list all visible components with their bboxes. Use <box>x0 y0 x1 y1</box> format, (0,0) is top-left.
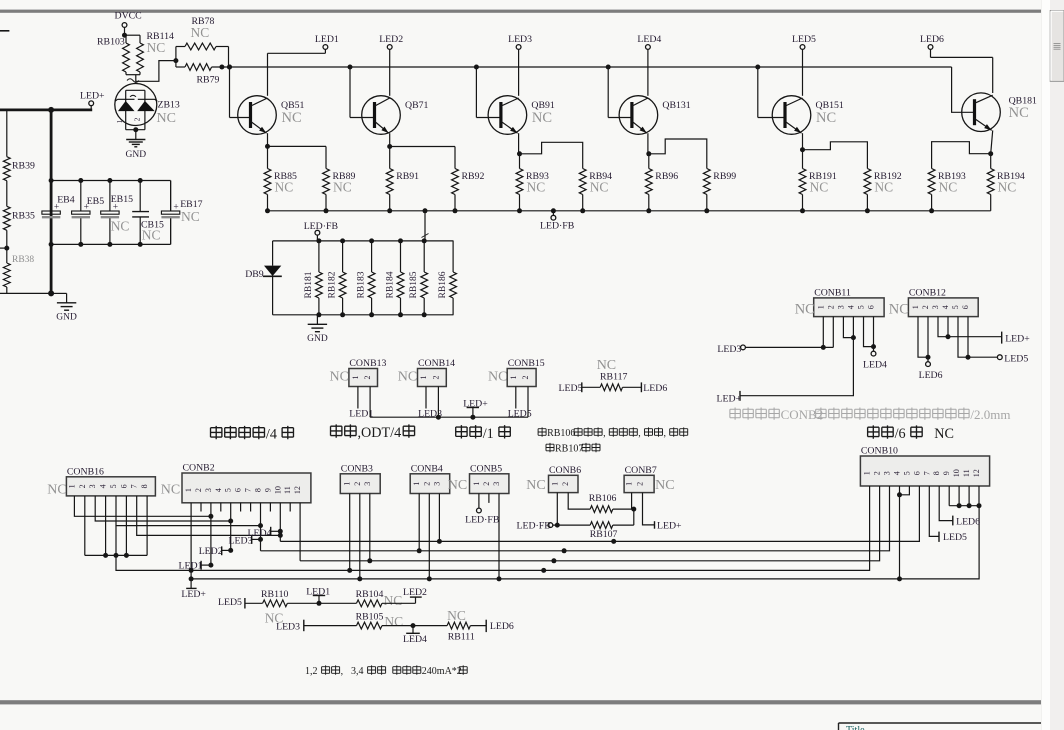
wire RB78 right down <box>216 47 229 68</box>
svg-text:2: 2 <box>353 482 362 486</box>
node low bus p5 <box>114 553 119 558</box>
svg-text:CONB5: CONB5 <box>470 463 502 474</box>
node RB35/RB38 junction <box>0 246 9 251</box>
node EB15 top node <box>107 178 112 183</box>
wire CONB11 pin6 LED4 <box>863 317 887 371</box>
svg-text:GND: GND <box>307 334 328 344</box>
svg-text:12: 12 <box>972 469 981 477</box>
svg-text:NC: NC <box>810 180 829 195</box>
node L5 conb4p2 <box>427 576 432 581</box>
resistor RB38 <box>3 248 34 293</box>
svg-text:NC: NC <box>816 110 836 126</box>
left edge wire stub <box>0 30 9 32</box>
capacitor EB15 <box>101 181 133 245</box>
svg-text:QB131: QB131 <box>662 100 690 111</box>
wire bus L3 <box>300 486 880 561</box>
svg-text:NC: NC <box>384 614 403 629</box>
wire to GND <box>51 293 67 302</box>
svg-text:4: 4 <box>99 484 108 488</box>
svg-text:RB103: RB103 <box>97 37 125 48</box>
node RB18x bottom <box>340 312 345 317</box>
svg-text:5: 5 <box>224 488 233 492</box>
svg-text:LED5: LED5 <box>1004 354 1028 365</box>
node RB191 rail <box>800 208 805 213</box>
wire base bus <box>230 66 952 68</box>
svg-text:/6: /6 <box>895 426 906 442</box>
svg-text:3: 3 <box>432 482 441 486</box>
node L5 conb5p3 <box>497 576 502 581</box>
transistor QB131 <box>619 96 691 135</box>
wire C4p2 <box>428 494 430 579</box>
node RB18x bottom <box>422 312 427 317</box>
wire CONB12 pin6 LED5 <box>968 317 1028 365</box>
svg-text:QB71: QB71 <box>405 100 429 111</box>
svg-text:EB15: EB15 <box>111 194 133 205</box>
node L4 conb3p1 <box>347 568 352 573</box>
wire CONB11 pin5 <box>864 317 877 350</box>
wire C3p2 <box>359 494 361 579</box>
terminal LED1 <box>268 34 339 53</box>
wire RB106 right <box>613 507 637 512</box>
svg-text:RB35: RB35 <box>12 211 35 222</box>
svg-text:CONB13: CONB13 <box>349 358 386 369</box>
title block <box>839 723 1051 730</box>
node RB91 rail <box>387 208 392 213</box>
svg-text:11: 11 <box>283 486 292 494</box>
wire CONB11 pin2 <box>832 317 834 348</box>
terminal LED3 low <box>276 620 304 633</box>
resistor RB191 <box>799 150 837 211</box>
svg-text:1: 1 <box>351 376 360 380</box>
terminal LED1 mesh <box>179 561 211 572</box>
resistor RB99 <box>703 169 736 211</box>
svg-text:NC: NC <box>147 40 166 55</box>
wire C7p1 <box>632 493 634 510</box>
terminal LED6 <box>920 34 993 57</box>
wire to RB94 <box>520 142 583 168</box>
node L2 conb4p1 <box>417 548 422 553</box>
svg-text:LED·FB: LED·FB <box>540 221 575 232</box>
svg-text:RB186: RB186 <box>438 271 448 298</box>
bottom gray border bar <box>0 700 1049 704</box>
node base riser QB51 <box>227 65 232 70</box>
svg-text:11: 11 <box>962 469 971 477</box>
wire left branch <box>6 110 8 157</box>
svg-text:RB91: RB91 <box>396 171 419 182</box>
wire C16p3 bus <box>95 496 233 524</box>
svg-text:8: 8 <box>140 484 149 488</box>
resistor RB192 <box>864 169 902 211</box>
svg-text:3,4: 3,4 <box>351 666 364 677</box>
svg-text:4: 4 <box>941 305 950 309</box>
svg-text:CONB4: CONB4 <box>411 463 443 474</box>
wire CONB12 pin4 <box>947 317 949 337</box>
svg-text:10: 10 <box>273 486 282 494</box>
ground DB9 section <box>307 315 328 344</box>
caption socket note <box>730 407 1011 422</box>
svg-text:7: 7 <box>922 471 931 475</box>
node RB79 out <box>219 65 232 70</box>
terminal LED4 low <box>382 623 447 645</box>
wire CONB12 pin3 <box>938 317 1002 340</box>
wire C4p1 <box>418 494 420 551</box>
terminal LED-FB mid <box>304 221 339 241</box>
svg-text:NC: NC <box>157 111 176 126</box>
wire emitter QB91 <box>518 133 521 154</box>
svg-text:LED2: LED2 <box>403 587 427 598</box>
connector CONB13 <box>330 358 387 387</box>
terminal LED2 mesh <box>199 546 231 557</box>
svg-text:240mA*2: 240mA*2 <box>422 666 462 677</box>
terminal LED3 <box>508 34 532 96</box>
svg-text:NC: NC <box>1009 105 1029 121</box>
connector CONB6 <box>526 465 581 493</box>
wire C2p5 <box>228 512 233 553</box>
svg-text:2: 2 <box>78 484 87 488</box>
svg-text:RB183: RB183 <box>357 271 367 298</box>
svg-text:LED2: LED2 <box>199 546 223 557</box>
diode DB9 <box>245 241 282 315</box>
no-ERC marker descender <box>422 234 429 238</box>
svg-text:,: , <box>603 428 606 439</box>
svg-text:3: 3 <box>363 482 372 486</box>
svg-text:6: 6 <box>234 488 243 492</box>
svg-text:2: 2 <box>194 488 203 492</box>
svg-text:,: , <box>664 428 667 439</box>
svg-text:5: 5 <box>951 305 960 309</box>
wire base QB131 <box>608 67 632 118</box>
svg-text:2: 2 <box>521 376 530 380</box>
node emitter junction QB51 <box>265 144 270 149</box>
svg-text:DB9: DB9 <box>245 269 264 280</box>
node emitter junction QB181 <box>988 151 993 156</box>
connector CONB11 <box>795 287 884 317</box>
svg-text:3: 3 <box>204 488 213 492</box>
wire CONB15 pin1 <box>508 387 532 420</box>
terminal LED+ bottom <box>181 579 206 600</box>
wire cap top rail <box>51 181 171 212</box>
svg-text:NC: NC <box>527 180 546 195</box>
wire low bus descender <box>116 555 191 570</box>
wire emitter QB131 <box>647 133 650 154</box>
svg-text:NC: NC <box>282 110 302 126</box>
connector CONB7 <box>624 465 674 493</box>
wire base QB51 <box>230 67 251 118</box>
svg-text:3: 3 <box>88 484 97 488</box>
svg-text:3: 3 <box>836 305 845 309</box>
node RB18x bottom <box>398 312 403 317</box>
svg-text:8: 8 <box>932 471 941 475</box>
svg-text:NC: NC <box>655 478 674 493</box>
terminal LED-FB stage <box>540 208 575 231</box>
svg-text:Title: Title <box>846 725 865 730</box>
svg-text:LED6: LED6 <box>956 516 980 527</box>
wire rail descender vertical <box>424 211 426 241</box>
node EB5 top node <box>78 178 83 183</box>
svg-text:CONB7: CONB7 <box>625 465 657 476</box>
wire base QB181 <box>952 67 975 112</box>
svg-text:NC: NC <box>488 370 507 385</box>
wire bus L4 <box>191 486 870 570</box>
resistor RB114 <box>137 31 174 75</box>
svg-text:6: 6 <box>961 305 970 309</box>
svg-text:RB99: RB99 <box>713 171 736 182</box>
svg-text:2: 2 <box>873 471 882 475</box>
svg-text:LED+: LED+ <box>1005 334 1030 345</box>
resistor RB96 <box>645 154 678 211</box>
wire RB106/107 link <box>633 509 635 525</box>
svg-text:LED6: LED6 <box>919 370 943 381</box>
node emitter junction QB91 <box>517 151 522 156</box>
svg-text:6: 6 <box>912 471 921 475</box>
wire C2p10 <box>278 512 283 542</box>
wire C2p12 <box>299 512 301 561</box>
terminal LED6 tick <box>641 382 667 393</box>
svg-text:RB39: RB39 <box>12 161 35 172</box>
svg-text:CONB2: CONB2 <box>183 463 215 474</box>
resistor RB186 <box>438 241 456 315</box>
svg-text:LED+: LED+ <box>717 394 742 405</box>
terminal LED5 tick <box>559 382 583 393</box>
svg-text:4: 4 <box>214 488 223 492</box>
terminal LED+ mid <box>463 398 488 419</box>
resistor RB183 <box>357 241 375 315</box>
node RB18x top <box>398 238 403 243</box>
svg-text:LED·FB: LED·FB <box>517 521 552 532</box>
svg-text:NC: NC <box>874 180 893 195</box>
ground left <box>56 303 77 323</box>
resistor RB117 <box>582 358 642 391</box>
svg-text:/1: /1 <box>483 426 494 442</box>
resistor RB92 <box>452 169 485 211</box>
svg-text:5: 5 <box>902 471 911 475</box>
svg-text:LED·FB: LED·FB <box>465 515 500 526</box>
svg-text:NC: NC <box>398 370 417 385</box>
svg-text:NC: NC <box>47 483 66 498</box>
wire CONB12 pin5 <box>958 317 971 360</box>
resistor RB185 <box>409 241 427 315</box>
node CB15 top node <box>138 178 143 183</box>
svg-text:RB79: RB79 <box>197 75 220 86</box>
wire RB79 right <box>212 66 230 68</box>
svg-text:NC: NC <box>191 25 210 40</box>
svg-text:NC: NC <box>998 180 1017 195</box>
node EB15 bottom node <box>107 242 112 247</box>
terminal LED6 low <box>486 620 514 633</box>
terminal LED+ <box>80 91 105 110</box>
wire CONB15 pin2 <box>527 387 529 418</box>
wire C16p5 bus <box>116 496 263 528</box>
svg-text:CONB11: CONB11 <box>814 287 851 298</box>
svg-text:LED5: LED5 <box>218 597 242 608</box>
svg-text:NC: NC <box>889 302 909 318</box>
svg-text:RB96: RB96 <box>655 171 678 182</box>
resistor RB110 <box>245 589 319 625</box>
caption huidi <box>331 424 415 441</box>
svg-text:RB105: RB105 <box>356 612 384 623</box>
svg-text:NC: NC <box>275 180 294 195</box>
node RB18x bottom <box>316 312 321 317</box>
svg-text:RB38: RB38 <box>12 255 34 265</box>
connector CONB2 <box>182 463 311 503</box>
node L3 conb3p3 <box>367 558 372 563</box>
wire RB103/RB114 bottom join <box>126 75 140 84</box>
svg-text:12: 12 <box>293 486 302 494</box>
node RB92 rail <box>453 208 458 213</box>
resistor RB181 <box>304 241 322 315</box>
node RB18x bottom <box>369 312 374 317</box>
wire base QB151 <box>758 67 785 118</box>
svg-text:LED4: LED4 <box>863 360 887 371</box>
svg-text:NC: NC <box>330 370 349 385</box>
zener diode ZB13 <box>115 84 180 130</box>
wire C10p4 <box>899 486 901 579</box>
svg-text:LED6: LED6 <box>920 34 944 45</box>
svg-text:LED3: LED3 <box>508 34 532 45</box>
wire C2 pin stubs <box>191 503 300 512</box>
svg-text:8: 8 <box>254 488 263 492</box>
svg-text:3: 3 <box>492 482 501 486</box>
svg-text:NC: NC <box>333 180 352 195</box>
wire to RB99 <box>649 139 707 169</box>
svg-text:RB107: RB107 <box>590 529 618 540</box>
node RB99 rail <box>704 208 709 213</box>
connector CONB10 <box>860 446 989 487</box>
node emitter junction QB131 <box>646 151 651 156</box>
svg-text:EB5: EB5 <box>87 196 105 207</box>
resistor RB182 <box>328 241 346 315</box>
svg-text:1: 1 <box>863 471 872 475</box>
svg-text:RB107: RB107 <box>555 444 583 455</box>
node L1 conb4p3 <box>437 539 442 544</box>
wire C3p3 <box>369 494 371 561</box>
svg-text:NC: NC <box>526 478 545 493</box>
svg-text:CONB10: CONB10 <box>861 446 898 457</box>
wire CONB13 pin2 <box>369 387 371 418</box>
resistor RB103 <box>97 37 129 75</box>
wire bus L1 <box>280 486 919 541</box>
resistor RB194 <box>987 154 1025 211</box>
resistor RB78 <box>185 16 216 50</box>
svg-text:CONB14: CONB14 <box>418 358 455 369</box>
node RB18x top <box>340 238 345 243</box>
wire C2p8 <box>258 512 263 551</box>
wire to RB193 <box>932 142 991 169</box>
svg-text:1: 1 <box>412 482 421 486</box>
svg-text:RB110: RB110 <box>261 589 289 600</box>
wire C5p3 <box>498 494 500 579</box>
wire emitter QB181 <box>991 130 993 153</box>
wire C10p5 jog <box>897 486 909 497</box>
transistor QB71 <box>362 96 429 135</box>
svg-text:1: 1 <box>419 376 428 380</box>
wire base QB71 <box>350 67 375 118</box>
node base riser QB91 <box>474 65 479 70</box>
capacitor EB4 <box>42 181 75 245</box>
svg-text:NC: NC <box>939 180 958 195</box>
terminal LED-FB bottom <box>517 521 560 532</box>
svg-text:2: 2 <box>422 482 431 486</box>
svg-text:2: 2 <box>133 117 142 121</box>
transistor QB181 <box>962 93 1037 132</box>
connector CONB16 <box>47 466 180 497</box>
wire emitter QB151 <box>802 133 804 150</box>
svg-text:NC: NC <box>181 209 200 224</box>
node emitter junction QB71 <box>387 144 392 149</box>
svg-text:2: 2 <box>482 482 491 486</box>
resistor RB89 <box>323 169 356 211</box>
svg-text:LED6: LED6 <box>643 383 667 394</box>
svg-text:RB111: RB111 <box>448 632 475 643</box>
resistor RB94 <box>579 169 612 211</box>
node EB4 bottom node <box>49 242 54 247</box>
wire C4p3 <box>438 494 440 542</box>
svg-text:+: + <box>173 202 178 212</box>
svg-text:6: 6 <box>867 305 876 309</box>
wire C5p1 LED-FB <box>465 494 500 526</box>
svg-text:NC: NC <box>532 110 552 126</box>
wire cap bottom rail <box>51 218 171 245</box>
terminal LED2 low <box>382 587 427 603</box>
svg-text:5: 5 <box>109 484 118 488</box>
node base riser QB71 <box>348 65 353 70</box>
svg-text:CONB12: CONB12 <box>909 287 946 298</box>
node RB96 rail <box>646 208 651 213</box>
resistor RB107 <box>553 522 634 540</box>
node ZB13 bottom <box>133 127 138 132</box>
wire to RB89 <box>268 146 327 168</box>
wire C6p1 <box>556 493 558 525</box>
wire DB9 section top rail <box>273 240 454 242</box>
svg-text:GND: GND <box>126 150 147 160</box>
node CB15 bottom node <box>138 242 143 247</box>
wire CONB11 pin4 LED+ <box>717 317 854 405</box>
svg-text:,: , <box>638 428 641 439</box>
svg-text:1: 1 <box>911 305 920 309</box>
wire C2p1 <box>189 512 194 582</box>
svg-text:LED3: LED3 <box>717 344 741 355</box>
node EB4 top node <box>49 178 54 183</box>
svg-text:NC: NC <box>924 426 954 442</box>
svg-text:,: , <box>341 666 344 677</box>
connector CONB14 <box>398 358 455 387</box>
svg-text:RB181: RB181 <box>304 271 314 298</box>
svg-text:GND: GND <box>56 312 77 322</box>
svg-text:1,2: 1,2 <box>305 666 318 677</box>
svg-text:10: 10 <box>952 469 961 477</box>
window scrollbar <box>1041 0 1064 730</box>
wire C6p2 <box>568 493 590 510</box>
terminal LED1 low <box>306 586 330 605</box>
svg-text:1: 1 <box>509 376 518 380</box>
resistor RB111 <box>447 608 486 643</box>
svg-text:LED5: LED5 <box>792 34 816 45</box>
svg-text:CONB15: CONB15 <box>508 358 545 369</box>
wire thick vertical <box>50 110 53 294</box>
terminal LED+ right <box>1002 332 1031 345</box>
node RB94 rail <box>580 208 585 213</box>
node RB193 rail <box>929 208 934 213</box>
wire CONB14 pin2 <box>437 387 439 418</box>
svg-text:RB185: RB185 <box>409 271 419 298</box>
svg-text:RB117: RB117 <box>600 372 628 383</box>
node emitter junction QB151 <box>800 147 805 152</box>
svg-text:2: 2 <box>826 305 835 309</box>
svg-text:NC: NC <box>597 358 616 373</box>
power port DVCC <box>115 11 142 36</box>
svg-text:4: 4 <box>893 471 902 475</box>
svg-text:LED2: LED2 <box>379 34 403 45</box>
